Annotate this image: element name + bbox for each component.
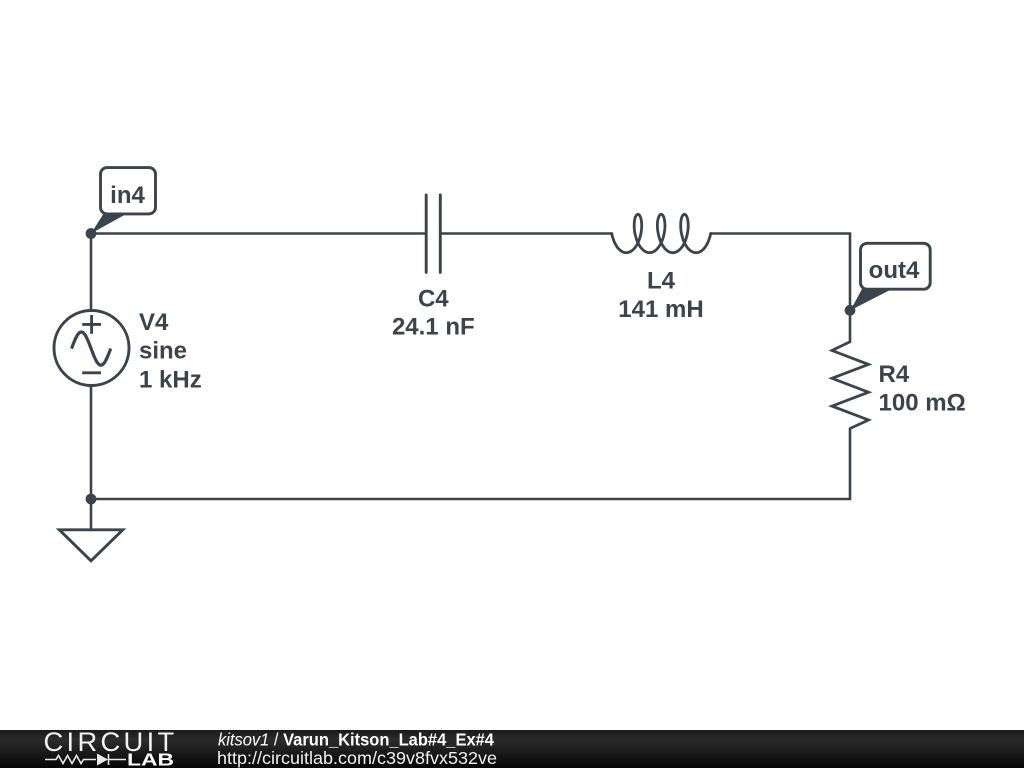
svg-text:sine: sine [139,338,187,365]
wire: L4 to top-right corner [711,232,850,235]
node flag out4 [851,243,931,310]
svg-text:100 mΩ: 100 mΩ [879,389,966,416]
junction node out4 [845,305,856,316]
junction node in4 [86,228,97,239]
svg-text:kitsov1 / Varun_Kitson_Lab#4_E: kitsov1 / Varun_Kitson_Lab#4_Ex#4 [218,730,494,750]
svg-text:1 kHz: 1 kHz [139,366,202,393]
inductor L4 [612,214,711,252]
wire bottom: right corner to ground node [91,498,850,501]
svg-text:C4: C4 [418,285,449,312]
ground symbol [59,530,123,561]
svg-text:24.1 nF: 24.1 nF [392,314,475,341]
wire: C4 right plate to L4 [440,232,611,235]
svg-text:LAB: LAB [127,750,174,768]
wire: ground node stub to ground symbol [90,499,93,530]
svg-text:in4: in4 [110,182,145,209]
svg-text:R4: R4 [879,361,910,388]
junction node ground [86,494,97,505]
wire: V4 bottom to ground node [90,386,93,499]
svg-text:L4: L4 [647,268,676,295]
svg-text:out4: out4 [869,257,920,284]
CircuitLab logo mini-schematic diode [97,754,108,766]
CircuitLab logo mini-schematic wire [45,754,126,765]
voltage source V4 [54,311,129,386]
svg-text:http://circuitlab.com/c39v8fvx: http://circuitlab.com/c39v8fvx532ve [217,748,497,768]
resistor R4 [832,342,869,429]
capacitor C4 [426,195,440,272]
node flag in4 [91,168,156,234]
wire right vertical: corner to out4 node to R4 top [849,234,852,342]
svg-text:141 mH: 141 mH [618,296,703,323]
wire: R4 bottom to bottom-right corner [849,429,852,500]
svg-text:V4: V4 [139,309,169,336]
wire top-left: in4 node to C4 left plate [91,232,426,235]
wire left vertical: in4 node to V4 top [90,234,93,311]
